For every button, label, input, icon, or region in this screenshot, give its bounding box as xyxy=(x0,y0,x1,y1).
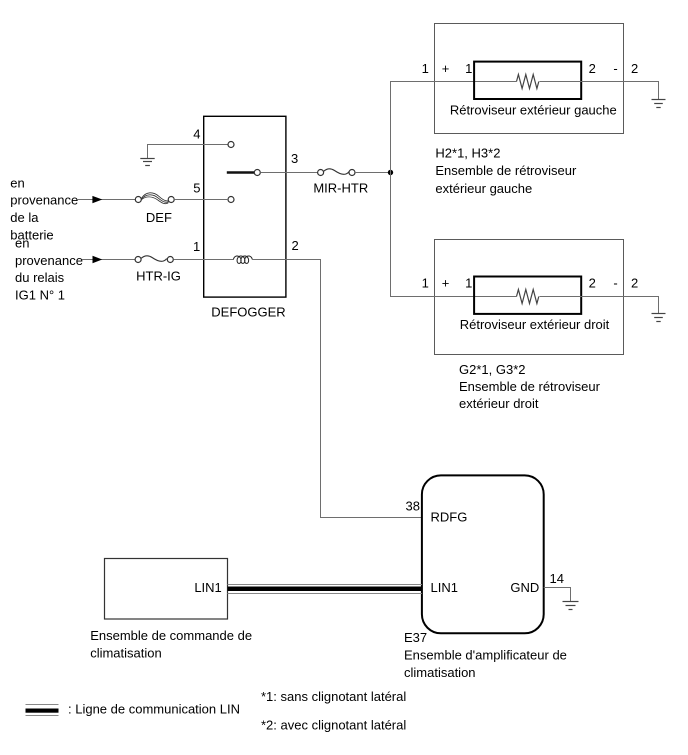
wire IG1 relay feed to fuse HTR-IG xyxy=(82,259,135,261)
svg-text:Rétroviseur extérieur droit: Rétroviseur extérieur droit xyxy=(460,317,610,332)
svg-text:du relais: du relais xyxy=(15,270,65,285)
resistor element right mirror xyxy=(517,290,539,304)
ground symbol left mirror xyxy=(652,100,666,108)
caption G2 G3 ensemble retroviseur droit xyxy=(459,362,601,411)
svg-text:5: 5 xyxy=(193,181,200,196)
svg-text:Ensemble de rétroviseur: Ensemble de rétroviseur xyxy=(435,163,577,178)
svg-text:*1: sans clignotant latéral: *1: sans clignotant latéral xyxy=(261,689,406,704)
svg-text:LIN1: LIN1 xyxy=(431,580,458,595)
wire pin3 to fuse MIR-HTR xyxy=(260,172,317,174)
svg-text:14: 14 xyxy=(550,571,564,586)
arrow from IG1 relay xyxy=(93,256,103,263)
svg-text:DEF: DEF xyxy=(146,210,172,225)
mirror assembly H box (left mirror) xyxy=(435,24,624,134)
caption H2 H3 ensemble retroviseur gauche xyxy=(435,146,577,196)
fuse DEF xyxy=(135,193,174,204)
wire pin4 to ground xyxy=(148,145,229,159)
svg-text:+: + xyxy=(442,61,450,76)
svg-text:Ensemble de commande de: Ensemble de commande de xyxy=(90,628,252,643)
control box (commande de climatisation) xyxy=(105,559,228,620)
relay DEFOGGER box xyxy=(204,116,286,297)
caption ensemble de commande xyxy=(90,628,252,660)
wire HTR-IG to coil xyxy=(174,259,234,261)
svg-text:DEFOGGER: DEFOGGER xyxy=(211,304,285,319)
svg-text:2: 2 xyxy=(589,61,596,76)
svg-text:2: 2 xyxy=(631,276,638,291)
svg-text:-: - xyxy=(613,276,617,291)
svg-text:provenance: provenance xyxy=(15,253,83,268)
svg-text:en: en xyxy=(10,175,24,190)
text en provenance du relais IG1 N 1 xyxy=(15,236,83,303)
svg-text:4: 4 xyxy=(193,127,200,142)
svg-text:provenance: provenance xyxy=(10,193,78,208)
amplifier E37 box xyxy=(422,475,544,633)
svg-text:+: + xyxy=(442,276,450,291)
svg-text:: Ligne de communication LIN: : Ligne de communication LIN xyxy=(68,702,240,717)
arrow from battery xyxy=(92,196,102,203)
defogger relay coil xyxy=(233,256,252,263)
legend LIN line sample xyxy=(26,705,59,716)
svg-text:Ensemble d'amplificateur de: Ensemble d'amplificateur de xyxy=(404,648,567,663)
svg-text:IG1 N° 1: IG1 N° 1 xyxy=(15,287,65,302)
svg-text:2: 2 xyxy=(589,276,596,291)
wire coil to pin2 down to RDFG xyxy=(252,260,422,518)
switch contact pin 4 xyxy=(228,142,234,148)
svg-text:HTR-IG: HTR-IG xyxy=(136,269,181,284)
svg-text:-: - xyxy=(613,61,617,76)
switch contact pin 3 xyxy=(254,170,260,176)
wire DEF to pin 5 xyxy=(174,199,228,201)
wire right mirror feed xyxy=(390,296,517,298)
svg-text:1: 1 xyxy=(465,61,472,76)
resistor element left mirror xyxy=(517,75,539,89)
svg-text:Ensemble de rétroviseur: Ensemble de rétroviseur xyxy=(459,379,601,394)
wire resistor to ground right mirror xyxy=(540,297,659,314)
svg-text:1: 1 xyxy=(422,276,429,291)
wire left mirror feed xyxy=(390,81,517,83)
wire fuse MIR-HTR to junction xyxy=(355,172,391,174)
svg-text:2: 2 xyxy=(292,238,299,253)
svg-text:MIR-HTR: MIR-HTR xyxy=(313,180,368,195)
heater resistor left mirror box xyxy=(474,62,581,99)
fuse HTR-IG xyxy=(135,256,173,263)
svg-text:Rétroviseur extérieur gauche: Rétroviseur extérieur gauche xyxy=(450,103,617,118)
svg-text:LIN1: LIN1 xyxy=(194,580,221,595)
svg-text:1: 1 xyxy=(193,239,200,254)
wire battery feed to fuse DEF xyxy=(78,199,136,201)
svg-text:3: 3 xyxy=(291,151,298,166)
svg-text:38: 38 xyxy=(406,498,420,513)
svg-text:G2*1, G3*2: G2*1, G3*2 xyxy=(459,362,526,377)
svg-text:climatisation: climatisation xyxy=(404,665,476,680)
svg-text:1: 1 xyxy=(422,61,429,76)
switch contact pin 5 xyxy=(228,197,234,203)
junction node xyxy=(388,170,393,175)
caption E37 amplificateur xyxy=(404,630,567,680)
svg-text:H2*1, H3*2: H2*1, H3*2 xyxy=(435,146,500,161)
LIN bus wire xyxy=(228,585,422,594)
ground symbol E37 xyxy=(563,602,579,610)
svg-text:climatisation: climatisation xyxy=(90,646,162,661)
text en provenance de la batterie xyxy=(10,175,78,242)
svg-text:*2: avec clignotant latéral: *2: avec clignotant latéral xyxy=(261,718,406,733)
fuse MIR-HTR xyxy=(318,169,355,176)
wire GND to ground xyxy=(544,588,571,602)
heater resistor right mirror box xyxy=(474,277,581,314)
wire resistor to ground left mirror xyxy=(540,82,659,100)
svg-text:de la: de la xyxy=(10,210,39,225)
svg-text:extérieur droit: extérieur droit xyxy=(459,396,539,411)
svg-text:2: 2 xyxy=(631,61,638,76)
svg-text:extérieur gauche: extérieur gauche xyxy=(435,181,532,196)
wire vertical bus junction xyxy=(390,82,392,297)
svg-text:RDFG: RDFG xyxy=(431,510,468,525)
svg-text:GND: GND xyxy=(510,580,539,595)
svg-text:1: 1 xyxy=(465,276,472,291)
svg-text:en: en xyxy=(15,236,29,251)
mirror assembly G box (right mirror) xyxy=(435,240,624,355)
ground symbol (defogger pin 4) xyxy=(140,159,154,166)
ground symbol right mirror xyxy=(652,314,666,322)
switch common blade xyxy=(227,171,255,173)
svg-text:E37: E37 xyxy=(404,630,427,645)
